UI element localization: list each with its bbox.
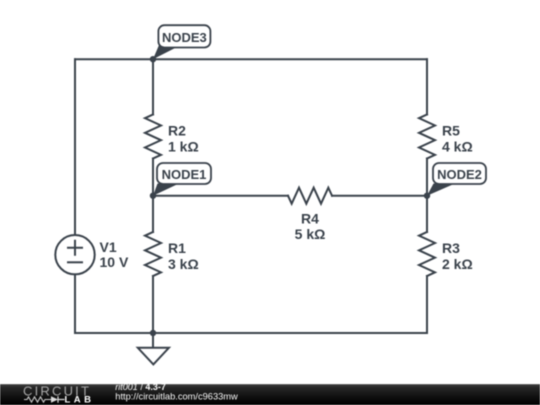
ground stem	[152, 333, 154, 346]
wire node1 to R1	[152, 196, 154, 232]
wire R3 to ground rail	[426, 276, 428, 333]
svg-text:NODE3: NODE3	[162, 30, 207, 45]
svg-text:R5: R5	[442, 123, 460, 139]
svg-text:LAB: LAB	[65, 395, 95, 405]
svg-text:1 kΩ: 1 kΩ	[168, 139, 199, 155]
wire top (node3 rail)	[75, 58, 427, 60]
wire right upper (node3 rail to R5)	[426, 59, 428, 114]
node NODE2 callout tail	[427, 184, 455, 196]
svg-text:NODE1: NODE1	[162, 167, 207, 182]
wire middle upper (node3 to R2)	[152, 59, 154, 114]
svg-text:10 V: 10 V	[100, 254, 129, 270]
node NODE3 callout box	[158, 25, 210, 47]
wire left bottom lead of V1	[74, 274, 76, 333]
voltage source V1	[55, 235, 94, 274]
wire R5 to node2	[426, 159, 428, 196]
wire node2 to R3	[426, 196, 428, 232]
wire R1 to ground rail	[152, 276, 154, 333]
junction dot node3	[150, 56, 156, 62]
svg-text:R4: R4	[301, 211, 319, 227]
node NODE1 callout tail	[153, 184, 179, 196]
svg-text:R3: R3	[442, 240, 460, 256]
wire node1 to R4	[153, 195, 288, 197]
wire left top lead of V1	[74, 59, 76, 235]
wire R4 to node2	[332, 195, 427, 197]
svg-text:2 kΩ: 2 kΩ	[442, 256, 473, 272]
svg-text:NODE2: NODE2	[437, 167, 482, 182]
svg-text:R1: R1	[168, 240, 186, 256]
CircuitLab logo diode	[51, 396, 58, 403]
node NODE3 callout tail	[153, 46, 180, 60]
ground triangle	[138, 348, 169, 365]
footer bar	[0, 384, 540, 405]
resistor R3	[419, 232, 435, 276]
CircuitLab logo resistor squiggle	[24, 397, 51, 402]
wire bottom (ground rail)	[75, 332, 427, 334]
svg-text:V1: V1	[100, 239, 117, 255]
V1 plus sign	[68, 241, 82, 255]
node NODE2 callout box	[433, 163, 486, 184]
wire R2 to node1	[152, 159, 154, 196]
resistor R1	[145, 232, 161, 276]
svg-text:3 kΩ: 3 kΩ	[168, 256, 199, 272]
svg-text:http://circuitlab.com/c9633mw: http://circuitlab.com/c9633mw	[115, 392, 238, 402]
resistor R5	[419, 115, 435, 159]
resistor R2	[145, 115, 161, 159]
svg-text:R2: R2	[168, 123, 186, 139]
junction dot node2	[424, 193, 430, 199]
svg-text:5 kΩ: 5 kΩ	[295, 226, 326, 242]
V1 minus sign	[68, 261, 82, 263]
resistor R4	[288, 188, 332, 204]
node NODE1 callout box	[157, 163, 211, 184]
junction dot ground	[150, 330, 156, 336]
svg-text:4 kΩ: 4 kΩ	[442, 139, 473, 155]
junction dot node1	[150, 193, 156, 199]
